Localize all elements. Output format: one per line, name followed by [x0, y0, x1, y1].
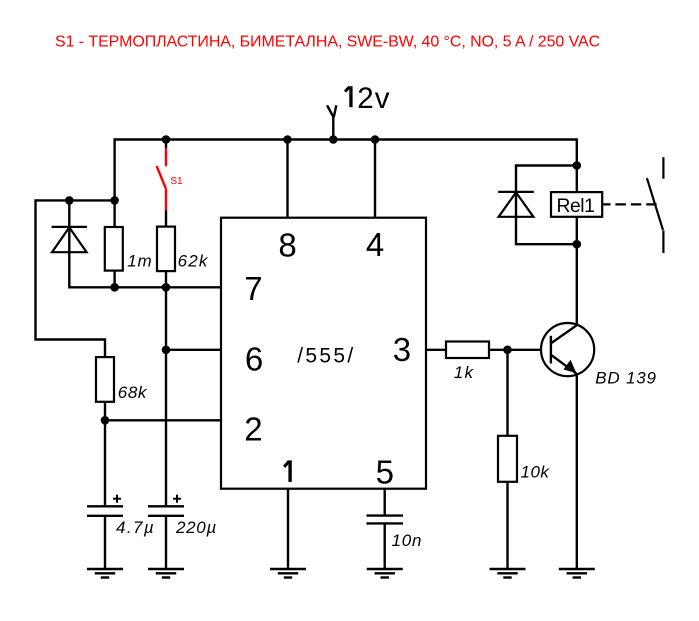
- svg-text:4: 4: [366, 226, 384, 263]
- svg-text:8: 8: [278, 226, 296, 263]
- svg-text:2: 2: [244, 410, 262, 447]
- svg-text:10k: 10k: [521, 462, 551, 481]
- svg-text:BD 139: BD 139: [595, 368, 657, 387]
- svg-text:6: 6: [245, 340, 263, 377]
- svg-text:S1 - ТЕРМОПЛАСТИНА, БИМЕТАЛНА,: S1 - ТЕРМОПЛАСТИНА, БИМЕТАЛНА, SWE-BW, 4…: [55, 34, 600, 51]
- svg-text:1m: 1m: [127, 251, 152, 270]
- svg-text:/555/: /555/: [297, 344, 355, 367]
- svg-text:5: 5: [376, 453, 394, 490]
- svg-text:S1: S1: [170, 176, 183, 187]
- svg-text:Rel1: Rel1: [557, 196, 595, 217]
- svg-text:7: 7: [244, 270, 262, 307]
- svg-text:220µ: 220µ: [175, 518, 217, 537]
- svg-text:1k: 1k: [454, 363, 475, 382]
- svg-text:3: 3: [393, 331, 411, 368]
- svg-text:68k: 68k: [118, 383, 148, 402]
- svg-text:4.7µ: 4.7µ: [116, 518, 155, 537]
- svg-text:2v: 2v: [357, 82, 390, 115]
- svg-text:62k: 62k: [178, 251, 209, 270]
- svg-text:10n: 10n: [392, 531, 423, 550]
